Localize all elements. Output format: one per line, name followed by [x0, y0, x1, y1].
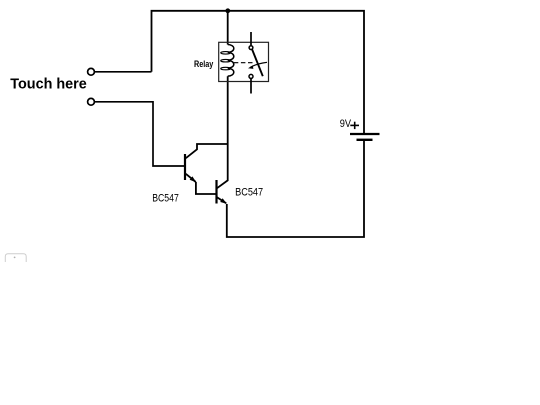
svg-text:9V: 9V — [340, 118, 352, 130]
svg-text:BC547: BC547 — [235, 186, 263, 198]
svg-text:Relay: Relay — [194, 59, 214, 70]
svg-text:Touch here: Touch here — [10, 77, 87, 93]
svg-text:BC547: BC547 — [152, 192, 179, 204]
